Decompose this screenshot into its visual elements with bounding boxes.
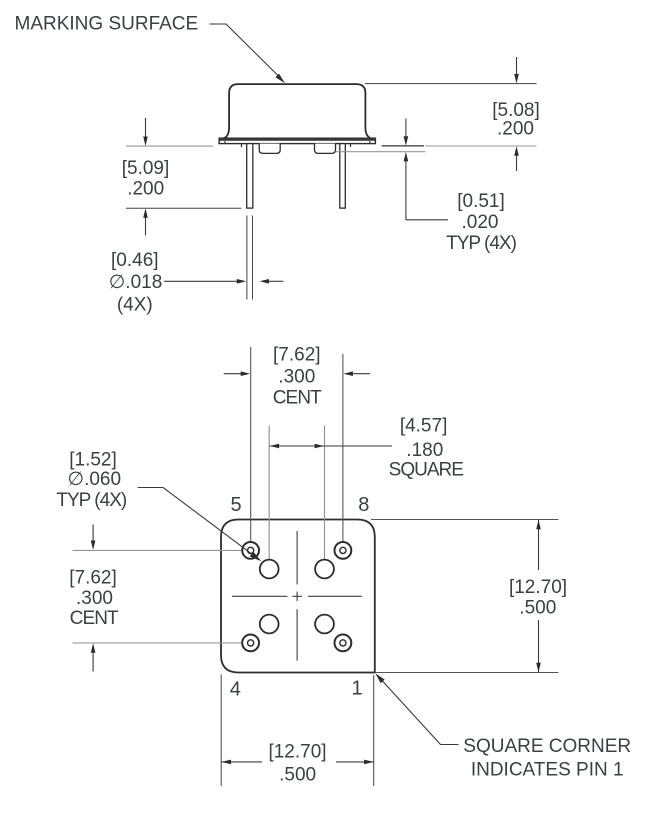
svg-text:.200: .200 [127,179,164,200]
svg-text:∅.060: ∅.060 [68,469,122,490]
svg-text:SQUARE: SQUARE [389,460,464,481]
svg-text:.020: .020 [462,212,499,233]
svg-text:[12.70]: [12.70] [509,577,567,598]
svg-text:.500: .500 [279,765,316,786]
svg-text:[1.52]: [1.52] [69,450,117,471]
svg-text:5: 5 [230,494,241,516]
svg-text:8: 8 [358,494,369,516]
svg-text:.200: .200 [497,119,534,140]
svg-text:TYP (4X): TYP (4X) [56,490,126,511]
svg-text:[5.09]: [5.09] [122,158,170,179]
svg-text:CENT: CENT [70,608,119,629]
svg-text:MARKING SURFACE: MARKING SURFACE [15,14,199,35]
svg-text:[0.51]: [0.51] [457,191,505,212]
svg-text:[4.57]: [4.57] [400,416,448,437]
svg-text:INDICATES PIN 1: INDICATES PIN 1 [471,760,624,781]
svg-text:.180: .180 [406,440,443,461]
svg-text:[7.62]: [7.62] [273,345,321,366]
svg-text:1: 1 [351,678,362,700]
svg-text:[12.70]: [12.70] [268,742,326,763]
svg-text:[7.62]: [7.62] [69,568,117,589]
svg-text:∅.018: ∅.018 [109,272,163,293]
svg-text:SQUARE CORNER: SQUARE CORNER [463,736,631,757]
svg-text:.500: .500 [519,598,556,619]
svg-text:.300: .300 [76,588,113,609]
svg-text:[0.46]: [0.46] [111,250,159,271]
svg-text:TYP (4X): TYP (4X) [446,233,516,254]
svg-text:.300: .300 [278,367,315,388]
svg-text:CENT: CENT [273,388,322,409]
svg-text:(4X): (4X) [117,295,153,316]
svg-text:4: 4 [230,678,241,700]
